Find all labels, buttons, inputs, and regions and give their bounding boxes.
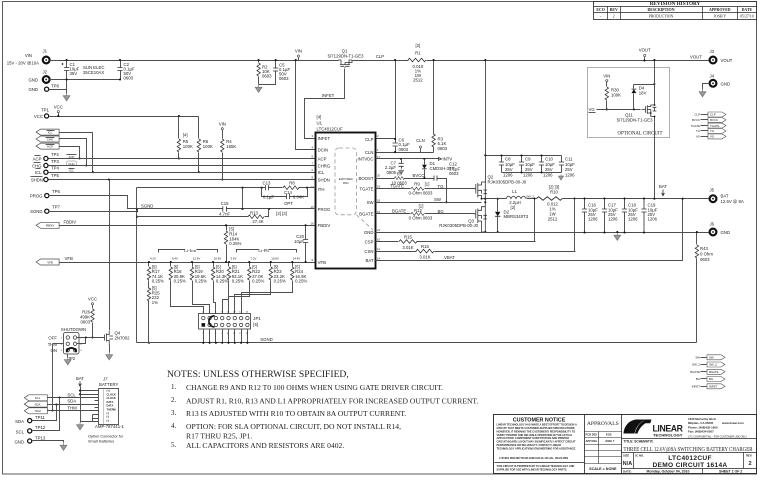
svg-text:R17 THRU R25, JP1.: R17 THRU R25, JP1. — [186, 432, 252, 441]
svg-text:TP12: TP12 — [35, 425, 46, 430]
test point TP4 — [44, 170, 48, 174]
svg-text:0603: 0603 — [279, 76, 289, 81]
capacitor C2 — [120, 61, 122, 80]
SECTION: shutdown / battery connector — [14, 180, 130, 451]
svg-text:GND: GND — [364, 230, 374, 235]
resistor R43 — [696, 233, 698, 343]
svg-text:N/A: N/A — [623, 461, 632, 467]
svg-text:1206: 1206 — [565, 173, 575, 178]
svg-text:TP3: TP3 — [51, 159, 59, 164]
svg-text:0.25%: 0.25% — [274, 279, 286, 284]
svg-text:27.4K: 27.4K — [252, 219, 263, 224]
svg-text:DATE: DATE — [742, 8, 753, 12]
svg-text:11: 11 — [377, 247, 380, 251]
svg-text:7.2V: 7.2V — [251, 256, 257, 260]
svg-text:SCL: SCL — [35, 396, 41, 400]
connector J1 VIN — [43, 57, 50, 64]
resistor R16 — [416, 249, 434, 253]
svg-text:R16: R16 — [421, 244, 429, 249]
svg-text:2.: 2. — [171, 396, 177, 404]
wire TP12 to SCL — [33, 398, 60, 431]
svg-text:FBDIV: FBDIV — [46, 224, 55, 228]
svg-text:2512: 2512 — [548, 216, 558, 221]
test point TP11 — [28, 419, 32, 423]
svg-text:J5: J5 — [710, 187, 715, 192]
svg-text:0.25%: 0.25% — [232, 279, 244, 284]
svg-text:VFB: VFB — [65, 256, 73, 261]
svg-text:RJK0305DPB-00-J0: RJK0305DPB-00-J0 — [439, 223, 478, 228]
wire ACP line — [49, 158, 316, 160]
svg-text:R10: R10 — [550, 190, 558, 195]
svg-text:VERIFY PROPER AND RELIABLE OPE: VERIFY PROPER AND RELIABLE OPERATION IN … — [497, 433, 573, 437]
connector J3 VOUT — [710, 57, 717, 64]
comp branch C14 — [262, 188, 308, 197]
svg-text:BAT: BAT — [721, 194, 729, 199]
svg-text:REV: REV — [610, 8, 618, 12]
capacitor C10 — [541, 156, 543, 173]
svg-text:AMP-787441-1: AMP-787441-1 — [95, 424, 125, 429]
svg-text:PCB DES: PCB DES — [586, 433, 598, 437]
svg-text:VIN: VIN — [603, 74, 610, 79]
svg-text:1206: 1206 — [523, 173, 533, 178]
svg-text:R7: R7 — [397, 171, 403, 176]
wire FBDIV line — [60, 225, 316, 227]
svg-text:1206: 1206 — [543, 173, 553, 178]
resistor R6 — [198, 117, 200, 173]
flag VFB — [36, 259, 59, 265]
svg-text:NOTES: UNLESS OTHERWISE SPECIF: NOTES: UNLESS OTHERWISE SPECIFIED, — [167, 369, 349, 380]
svg-text:[2]: [2] — [416, 43, 421, 48]
svg-text:0.25%: 0.25% — [252, 279, 264, 284]
node INTV label — [439, 158, 442, 161]
svg-text:BAT: BAT — [365, 258, 373, 263]
svg-text:REV.: REV. — [746, 454, 752, 458]
SECTION: testpoints left — [30, 105, 316, 266]
svg-text:12: 12 — [311, 185, 315, 189]
svg-text:[4]: [4] — [183, 133, 188, 138]
connector J5 BAT — [710, 195, 717, 202]
SECTION: notes — [167, 369, 479, 450]
wire SHDN line — [49, 179, 316, 181]
wire D4 top to Q11 drain rail — [634, 84, 655, 86]
wire CHG line — [49, 165, 316, 167]
svg-text:1206: 1206 — [628, 217, 638, 222]
svg-text:TGATE: TGATE — [691, 124, 700, 128]
svg-text:OFF: OFF — [48, 336, 57, 341]
ground — [255, 85, 262, 92]
wire SW pin line — [376, 202, 482, 204]
svg-text:15V - 20V @10A: 15V - 20V @10A — [7, 61, 39, 66]
svg-text:1206: 1206 — [503, 173, 513, 178]
svg-text:TP11: TP11 — [35, 415, 46, 420]
svg-text:PERFORMANCE OR RELIABILITY. C: PERFORMANCE OR RELIABILITY. CONTACT LINE… — [497, 443, 562, 447]
wire BAT rail — [563, 198, 710, 200]
svg-text:VOUT: VOUT — [639, 48, 651, 53]
wire CLN pin line — [376, 152, 434, 154]
SECTION: revision table — [594, 1, 757, 20]
svg-text:TECHNOLOGY APPLICATIONS ENGINE: TECHNOLOGY APPLICATIONS ENGINEERING FOR … — [497, 446, 577, 450]
svg-text:TECHNOLOGY: TECHNOLOGY — [653, 433, 683, 438]
logo LT — [624, 420, 652, 434]
svg-text:J6: J6 — [710, 221, 715, 226]
capacitor C12 — [434, 176, 437, 181]
wire JP2 pin2 to Q4 gate — [77, 337, 105, 339]
svg-text:R43: R43 — [700, 246, 708, 251]
svg-text:THREE CELL 12.6V@8A SWITCHING: THREE CELL 12.6V@8A SWITCHING BATTERY CH… — [624, 446, 754, 453]
diode D4 zener — [633, 85, 635, 110]
svg-text:R8: R8 — [289, 181, 295, 186]
svg-text:Q11: Q11 — [625, 112, 633, 117]
svg-text:4.2V: 4.2V — [150, 256, 156, 260]
JP1 pin numbers — [202, 312, 248, 335]
svg-text:CLP: CLP — [694, 113, 700, 117]
svg-text:VG: VG — [589, 107, 596, 112]
svg-text:SCL: SCL — [16, 429, 25, 434]
wire VCC rail — [50, 116, 199, 118]
wire TP6 to PROG — [49, 196, 137, 209]
svg-text:DATA: DATA — [107, 400, 114, 404]
svg-text:10µF: 10µF — [294, 239, 304, 244]
svg-text:IC NO.: IC NO. — [635, 454, 644, 458]
resistor R30 — [606, 82, 608, 110]
svg-text:TP7: TP7 — [52, 205, 60, 210]
svg-text:0603: 0603 — [438, 146, 448, 151]
resistor R7 — [394, 177, 404, 180]
svg-text:VFB: VFB — [318, 260, 326, 265]
svg-text:2: 2 — [748, 461, 751, 467]
wire TGATE line — [376, 188, 475, 190]
wire VIN rail left — [50, 60, 339, 62]
svg-text:0603: 0603 — [124, 76, 134, 81]
wire DCIN drop — [296, 61, 316, 150]
svg-text:ACP: ACP — [318, 156, 327, 161]
svg-text:Smart Batteries: Smart Batteries — [88, 439, 114, 443]
test point TP13 — [28, 439, 32, 443]
op-amp U1 LTC4012CUF body — [316, 133, 376, 269]
svg-text:3.: 3. — [171, 409, 177, 417]
svg-text:TP8: TP8 — [51, 84, 59, 89]
svg-text:SW: SW — [367, 200, 375, 205]
svg-text:CHRG: CHRG — [318, 163, 331, 168]
svg-text:165K: 165K — [226, 144, 236, 149]
svg-text:SUPPLIED FOR USE WITH LINEAR T: SUPPLIED FOR USE WITH LINEAR TECHNOLOGY … — [497, 467, 568, 471]
jumper shunt on JP1 — [209, 316, 215, 327]
capacitor C18 — [624, 199, 626, 233]
svg-text:10: 10 — [377, 238, 381, 242]
svg-text:VCC: VCC — [54, 105, 63, 110]
jumper shunt JP2 ON — [67, 348, 76, 352]
capacitor C9 — [521, 156, 523, 173]
capacitor C15 — [223, 206, 227, 211]
svg-text:0 Ohm 0603: 0 Ohm 0603 — [409, 216, 433, 221]
wire SDA line — [48, 404, 99, 406]
SECTION: top rail — [0, 0, 1, 1]
svg-text:(-): (-) — [107, 418, 110, 422]
svg-text:ALL CAPACITORS AND RESISTORS A: ALL CAPACITORS AND RESISTORS ARE 0402. — [186, 441, 344, 450]
wire Q4 source to ground — [109, 345, 111, 353]
resistor R5 — [178, 117, 180, 159]
wire THM line — [48, 410, 99, 412]
svg-text:CIRCUIT THAT MEETS CUSTOMER-SU: CIRCUIT THAT MEETS CUSTOMER-SUPPLIED SPE… — [497, 426, 576, 430]
jumper block JP1 — [199, 314, 251, 330]
resistor R20 — [214, 263, 216, 314]
svg-text:ECO: ECO — [596, 8, 604, 12]
SECTION: optional circuit — [588, 59, 670, 200]
size row — [633, 453, 635, 469]
svg-text:CLN: CLN — [365, 150, 374, 155]
connector J2 GND — [43, 76, 50, 83]
test point TP1 VCC — [45, 114, 49, 118]
svg-text:0.25%: 0.25% — [174, 279, 186, 284]
svg-text:SGND: SGND — [30, 209, 42, 214]
svg-text:C9: C9 — [525, 157, 531, 162]
resistor R22 — [229, 263, 250, 314]
wire ICL flag — [60, 133, 93, 173]
svg-text:INFET: INFET — [318, 136, 331, 141]
svg-text:SGND: SGND — [141, 204, 153, 209]
wire R10 kelvin left to CSP — [534, 199, 536, 242]
svg-text:INTVDC: INTVDC — [358, 157, 374, 162]
flag ICL — [36, 129, 59, 135]
resistor R23 — [235, 263, 271, 314]
svg-text:8.4V: 8.4V — [172, 256, 178, 260]
svg-text:TP6: TP6 — [52, 189, 60, 194]
capacitor C11 — [561, 156, 563, 173]
svg-text:0.25%: 0.25% — [229, 241, 241, 246]
resistor R9 — [411, 187, 424, 190]
svg-text:VBAT: VBAT — [444, 255, 455, 260]
wire SW node to L1 — [486, 198, 507, 200]
wire CSP line — [376, 241, 536, 243]
svg-text:LTC4012CUF: LTC4012CUF — [317, 127, 344, 132]
svg-text:CSN: CSN — [364, 249, 373, 254]
svg-text:GND: GND — [28, 87, 38, 92]
svg-text:CHG: CHG — [32, 164, 42, 169]
svg-text:0603: 0603 — [80, 320, 90, 325]
wire BAT pin line / VBAT — [376, 199, 683, 261]
svg-text:SW_2: SW_2 — [526, 194, 534, 198]
ground below JP2 — [67, 355, 69, 358]
svg-text:BGATE: BGATE — [690, 370, 700, 374]
svg-text:12.6V @ 8A: 12.6V @ 8A — [721, 199, 744, 204]
wire BGATE line — [376, 213, 475, 215]
svg-text:BATTERY: BATTERY — [99, 382, 119, 387]
wire ITH line — [137, 187, 316, 189]
capacitor C19 — [643, 199, 645, 233]
svg-text:VCC: VCC — [34, 114, 43, 119]
svg-text:BVCC: BVCC — [692, 118, 700, 122]
ground — [614, 233, 621, 240]
svg-text:Li-Ph: Li-Ph — [258, 248, 269, 253]
svg-text:APP ENG: APP ENG — [586, 439, 598, 443]
resistor R12 — [411, 212, 424, 215]
svg-text:14.4V: 14.4V — [293, 256, 301, 260]
flag THM — [24, 408, 47, 414]
svg-text:2N7002: 2N7002 — [115, 336, 131, 341]
svg-text:VIN: VIN — [219, 122, 226, 127]
ground — [558, 175, 563, 181]
test point TP12 — [28, 429, 32, 433]
svg-text:Fax: (408)434-0507: Fax: (408)434-0507 — [688, 430, 714, 434]
wire ACP flag — [60, 147, 80, 159]
svg-text:3.01K: 3.01K — [402, 245, 413, 250]
resistor R26 — [92, 305, 94, 338]
svg-text:ICL: ICL — [35, 170, 42, 175]
resistor R19 — [193, 263, 210, 314]
svg-text:3.01K: 3.01K — [419, 254, 430, 259]
svg-text:(-): (-) — [107, 415, 110, 419]
svg-text:J2: J2 — [43, 70, 48, 75]
svg-text:R9: R9 — [414, 182, 420, 187]
wire VG line — [597, 109, 641, 111]
svg-text:SCL: SCL — [67, 392, 76, 397]
svg-text:OPT: OPT — [284, 201, 293, 206]
svg-text:CLP: CLP — [710, 113, 716, 117]
svg-text:25V: 25V — [505, 167, 513, 172]
svg-text:12.6V: 12.6V — [193, 256, 201, 260]
svg-text:25V: 25V — [525, 167, 533, 172]
svg-text:1206: 1206 — [608, 217, 618, 222]
svg-text:SDA: SDA — [67, 399, 76, 404]
svg-text:TGATE: TGATE — [710, 124, 719, 128]
svg-text:0.25%: 0.25% — [152, 279, 164, 284]
svg-text:Option Connector for: Option Connector for — [88, 435, 124, 439]
wire R1 kelvin right through R3 to CLN — [433, 61, 435, 135]
svg-text:PROG: PROG — [30, 194, 43, 199]
svg-text:SW_2: SW_2 — [692, 363, 700, 367]
wire GND rail — [376, 232, 710, 234]
svg-text:0.25%: 0.25% — [195, 279, 207, 284]
capacitor C20 — [305, 226, 307, 263]
svg-text:BVCC: BVCC — [413, 173, 425, 178]
customer notice box — [584, 415, 586, 474]
wire rail R1 to VOUT — [427, 60, 710, 62]
svg-text:DATE:: DATE: — [623, 469, 632, 473]
svg-text:BAT: BAT — [76, 376, 84, 381]
svg-text:GND: GND — [721, 81, 731, 86]
svg-text:6.04K: 6.04K — [293, 194, 304, 199]
connector J6 GND — [710, 229, 717, 236]
svg-text:TP2: TP2 — [51, 152, 59, 157]
svg-text:C11: C11 — [565, 157, 573, 162]
svg-text:RJK0305DPB-00-J0: RJK0305DPB-00-J0 — [488, 179, 527, 184]
wire rail Q1 to R1 — [353, 60, 409, 62]
svg-text:CSP: CSP — [365, 239, 374, 244]
svg-text:0603: 0603 — [700, 257, 710, 262]
svg-text:C15: C15 — [221, 201, 229, 206]
svg-text:ICL: ICL — [48, 130, 53, 134]
svg-text:C13: C13 — [263, 181, 271, 186]
wire SGND vertical bus — [136, 188, 138, 343]
svg-text:0-Ohm 0603: 0-Ohm 0603 — [409, 191, 433, 196]
JP1 bottom stubs to SGND — [204, 330, 248, 343]
wire Q1 source to INFET — [305, 69, 345, 139]
SECTION: input left — [7, 43, 710, 153]
test point TP2 — [44, 156, 48, 160]
SECTION: ladder — [137, 248, 697, 344]
wire SGND rail — [137, 342, 697, 344]
svg-text:0603: 0603 — [449, 171, 459, 176]
svg-text:INFET: INFET — [322, 93, 335, 98]
revision history table — [594, 2, 757, 20]
capacitor C8 — [501, 156, 503, 173]
svg-text:0 Ohm: 0 Ohm — [700, 252, 713, 257]
svg-text:TITLE: SCHEMATIC: TITLE: SCHEMATIC — [624, 440, 654, 444]
svg-text:16.8V: 16.8V — [214, 256, 222, 260]
bracket Li-Ph — [237, 250, 297, 253]
wire SCL line — [48, 397, 99, 399]
svg-text:(+): (+) — [107, 389, 110, 393]
capacitor C5 — [259, 61, 276, 85]
svg-text:SW: SW — [695, 356, 700, 360]
svg-text:BGATE: BGATE — [709, 370, 719, 374]
wire CHG flag — [60, 139, 87, 166]
svg-text:HOWEVER, IT REMAINS THE CUSTOM: HOWEVER, IT REMAINS THE CUSTOMER'S RESPO… — [497, 429, 576, 433]
approvals box — [621, 415, 623, 474]
svg-text:OPTIONAL CIRCUIT: OPTIONAL CIRCUIT — [617, 132, 662, 137]
svg-text:R13: R13 — [250, 211, 258, 216]
svg-text:05/27/10: 05/27/10 — [740, 15, 754, 19]
svg-text:16: 16 — [311, 221, 315, 225]
svg-text:www.linear.com: www.linear.com — [721, 421, 744, 425]
svg-text:CHANGE R9 AND R12 T0 100 OHMS: CHANGE R9 AND R12 T0 100 OHMS WHEN USING… — [186, 383, 443, 392]
svg-text:3.6V: 3.6V — [231, 256, 237, 260]
svg-text:ECB: ECB — [606, 433, 612, 437]
capacitor C17 — [604, 199, 606, 233]
resistor R21 — [223, 263, 229, 314]
svg-text:0603: 0603 — [262, 74, 272, 79]
svg-text:35CE10AX: 35CE10AX — [83, 70, 104, 75]
test point TP8 — [45, 87, 49, 91]
svg-text:TP4: TP4 — [51, 166, 59, 171]
svg-text:SW: SW — [709, 356, 714, 360]
svg-text:DATA: DATA — [107, 404, 114, 408]
svg-text:[4]: [4] — [317, 115, 322, 120]
svg-text:TP13: TP13 — [35, 435, 46, 440]
svg-text:ICL: ICL — [318, 170, 325, 175]
svg-text:SCALE = NONE: SCALE = NONE — [589, 467, 617, 471]
svg-text:J7: J7 — [102, 377, 108, 382]
flag ACP — [36, 143, 59, 149]
svg-text:4.: 4. — [171, 422, 177, 430]
svg-text:21: 21 — [377, 228, 381, 232]
svg-text:REVISION HISTORY: REVISION HISTORY — [650, 1, 701, 7]
wire BAT vertical — [80, 387, 82, 423]
svg-text:TP1: TP1 — [41, 108, 49, 113]
svg-text:JOSH Y: JOSH Y — [605, 439, 615, 443]
svg-text:C:\P4DS PROJECTS\1614A\DC1614A: C:\P4DS PROJECTS\1614A\DC1614A-1\6 HAL_R… — [499, 456, 568, 460]
svg-text:100K: 100K — [203, 144, 213, 149]
svg-text:C8: C8 — [505, 157, 511, 162]
svg-text:J4: J4 — [710, 74, 715, 79]
svg-text:U1: U1 — [317, 121, 323, 126]
test point TP7 SGND — [45, 209, 49, 213]
wire CSN line — [376, 251, 576, 253]
svg-text:SDA: SDA — [15, 419, 24, 424]
svg-text:CLP: CLP — [376, 54, 384, 59]
wire GND J2 — [50, 79, 121, 81]
inductor L1 — [506, 196, 526, 198]
svg-text:(-): (-) — [107, 411, 110, 415]
svg-text:DEMO CIRCUIT 1614A: DEMO CIRCUIT 1614A — [652, 462, 727, 469]
svg-text:TP5: TP5 — [51, 173, 59, 178]
resistor R25 — [147, 288, 150, 301]
wire TP7 to SGND bus — [49, 211, 137, 213]
wire PROG line with C15 — [137, 208, 316, 210]
connector J4 GND — [710, 80, 717, 87]
wire R10 kelvin right to CSN — [574, 199, 576, 252]
svg-text:VOUT: VOUT — [721, 58, 733, 63]
